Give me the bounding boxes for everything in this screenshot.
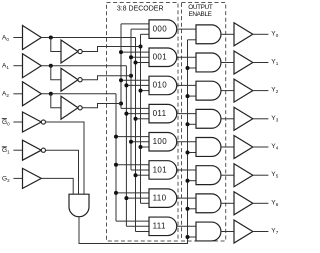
svg-text:010: 010 (153, 81, 168, 90)
svg-text:111: 111 (153, 222, 166, 231)
svg-text:3:8 DECODER: 3:8 DECODER (117, 6, 164, 13)
svg-text:101: 101 (153, 165, 168, 174)
svg-text:100: 100 (153, 137, 168, 146)
svg-text:000: 000 (153, 24, 168, 33)
svg-text:OUTPUT: OUTPUT (188, 4, 213, 11)
svg-text:011: 011 (153, 109, 167, 118)
svg-text:ENABLE: ENABLE (188, 11, 211, 18)
svg-text:110: 110 (153, 193, 167, 202)
svg-text:001: 001 (153, 53, 168, 62)
